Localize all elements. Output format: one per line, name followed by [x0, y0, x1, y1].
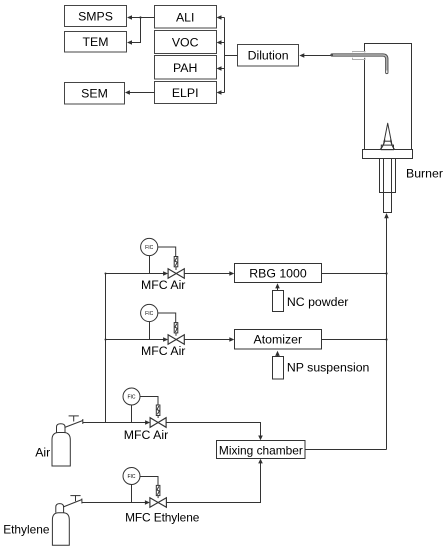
wire FIC4 to actuator [140, 477, 158, 486]
svg-text:MFC Air: MFC Air [141, 278, 185, 292]
actuator valve2 [174, 323, 178, 336]
valve MFC Ethylene [150, 498, 167, 508]
svg-text:MFC Ethylene: MFC Ethylene [125, 510, 200, 524]
svg-text:Ethylene: Ethylene [3, 523, 50, 537]
wire junction drop to TEM [127, 18, 141, 45]
instrument FIC 1 [141, 238, 158, 255]
main vertical wire to burner [386, 217, 388, 450]
bus instruments right [224, 18, 226, 93]
wire RBG to main [322, 273, 387, 275]
svg-text:ELPI: ELPI [172, 86, 199, 100]
burner tube outer [380, 159, 396, 193]
wire valve2 to Atomizer [184, 337, 234, 342]
svg-text:Air: Air [35, 446, 50, 460]
wire FIC2 drop [149, 322, 151, 340]
wire ELPI to SEM [125, 90, 155, 95]
wire row3 left [83, 420, 151, 425]
box ELPI [155, 82, 217, 104]
svg-text:FIC: FIC [127, 474, 135, 480]
arrow vial to RBG [275, 283, 280, 290]
vial NP suspension [273, 357, 284, 380]
wire row4 left [82, 500, 150, 505]
wire bus to Dilution [225, 55, 238, 57]
svg-text:Burner: Burner [406, 167, 443, 181]
svg-text:RBG 1000: RBG 1000 [249, 267, 307, 281]
box Atomizer [235, 330, 322, 350]
stub into ALI [217, 15, 225, 20]
bottle Air [52, 416, 83, 467]
stub into VOC [217, 40, 225, 45]
wire valve3 to mixing chamber [166, 423, 263, 441]
svg-text:ALI: ALI [176, 10, 194, 24]
svg-text:Atomizer: Atomizer [254, 333, 303, 347]
box SEM [65, 83, 125, 105]
valve MFC Air 1 [168, 269, 184, 279]
stub into PAH [217, 66, 225, 71]
probe port fitting [353, 52, 366, 60]
svg-text:TEM: TEM [83, 35, 109, 49]
burner body [365, 44, 412, 150]
wire row2 left [106, 337, 169, 342]
junction dot bus row1 [105, 273, 107, 275]
vial NC powder [273, 291, 284, 312]
actuator valve1 [174, 257, 178, 271]
junction dot ALI wire [139, 16, 141, 18]
burner flange [363, 150, 413, 159]
wire mixing chamber to main [305, 449, 387, 451]
svg-text:PAH: PAH [173, 61, 197, 75]
valve MFC Air 3 [150, 418, 166, 428]
instrument FIC 4 [123, 468, 140, 485]
wire probe to Dilution [299, 53, 331, 58]
box SMPS [65, 6, 127, 27]
actuator valve4 [156, 485, 160, 498]
svg-text:SMPS: SMPS [78, 10, 113, 24]
wire FIC2 to actuator [158, 313, 176, 323]
svg-text:VOC: VOC [172, 35, 199, 49]
svg-text:NP suspension: NP suspension [287, 361, 370, 375]
box VOC [155, 31, 217, 54]
junction dot RBG main [385, 272, 387, 274]
valve MFC Air 2 [168, 335, 184, 345]
flame skirt [380, 140, 395, 150]
wire FIC3 drop [131, 405, 133, 423]
junction dot bus row2 [105, 339, 107, 341]
arrow vial to Atomizer [275, 351, 280, 357]
wire FIC1 drop [149, 256, 151, 274]
box PAH [155, 56, 217, 80]
svg-text:Mixing chamber: Mixing chamber [219, 443, 303, 457]
arrow into burner [384, 213, 389, 218]
svg-text:MFC Air: MFC Air [124, 428, 168, 442]
bottle Ethylene [52, 495, 82, 545]
svg-text:FIC: FIC [145, 311, 153, 317]
stub into ELPI [217, 90, 225, 95]
wire FIC4 drop [131, 485, 133, 503]
svg-text:NC powder: NC powder [287, 295, 349, 309]
box TEM [65, 32, 127, 53]
wire row1 left [106, 271, 169, 276]
svg-text:FIC: FIC [145, 245, 153, 251]
bus air left [105, 274, 107, 423]
flame cone [383, 123, 392, 145]
svg-text:SEM: SEM [81, 87, 108, 101]
wire valve1 to RBG [184, 271, 234, 276]
probe tube [332, 55, 387, 73]
wire ALI to SMPS [127, 15, 155, 20]
instrument FIC 2 [141, 304, 158, 321]
junction dot Atomizer main [385, 338, 387, 340]
burner tube narrow [384, 193, 392, 213]
box Dilution [238, 45, 299, 67]
box RBG 1000 [235, 264, 322, 283]
wire FIC3 to actuator [140, 397, 158, 406]
box Mixing chamber [217, 441, 306, 459]
wire FIC1 to actuator [158, 247, 176, 257]
flame pedestal [381, 141, 393, 150]
svg-text:MFC Air: MFC Air [141, 344, 185, 358]
box ALI [155, 6, 217, 29]
instrument FIC 3 [123, 388, 140, 405]
wire Atomizer to main [322, 339, 387, 341]
wire valve4 to mixing chamber [166, 459, 262, 503]
svg-text:FIC: FIC [127, 395, 135, 401]
actuator valve3 [156, 405, 160, 418]
svg-text:Dilution: Dilution [248, 49, 289, 63]
